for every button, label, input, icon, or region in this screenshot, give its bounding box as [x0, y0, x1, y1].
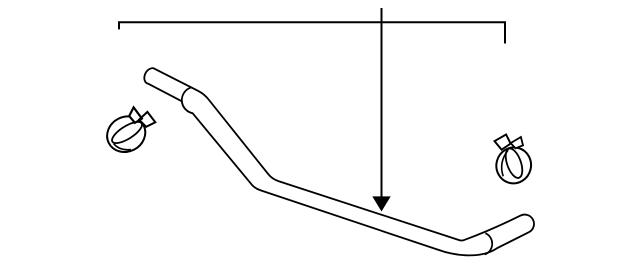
- clamp left: inner depth arc: [114, 144, 131, 150]
- clamp right: ring outer: [492, 144, 535, 188]
- leader line: [381, 8, 383, 198]
- clamp left: ear 1 outline redraw: [129, 107, 142, 122]
- clamp right: opening ellipse: [502, 146, 525, 180]
- clamp right: ear 2: [511, 137, 523, 148]
- hose body outline: [144, 68, 534, 255]
- clamp right: ear 1: [495, 135, 511, 150]
- arrowhead: [372, 196, 390, 211]
- clamp left: opening ellipse: [109, 118, 145, 147]
- clamp left: ear 1: [129, 107, 142, 122]
- dimension bracket: [119, 22, 505, 43]
- clamp right: ear 1 outline redraw: [495, 135, 511, 150]
- clamp right: inner depth arc: [502, 150, 508, 176]
- clamp left: ring outer: [101, 110, 151, 159]
- clamp left: ear 2: [139, 112, 155, 127]
- hose seam 2: [485, 233, 493, 254]
- hose seam 1: [182, 88, 193, 114]
